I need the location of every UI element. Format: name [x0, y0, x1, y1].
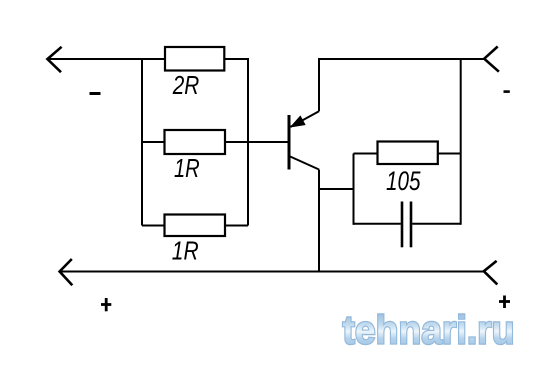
wire 105 left lead: [354, 153, 378, 155]
wire top rail left: [47, 58, 165, 60]
wire collector down: [318, 170, 320, 272]
wire right bus: [247, 58, 249, 226]
svg-text:1R: 1R: [172, 236, 199, 266]
label minus top-right: [504, 90, 510, 93]
terminal T4 bottom-right: [484, 261, 498, 285]
wire base lead to Q1: [225, 141, 289, 143]
resistor 1R bottom: [165, 215, 226, 237]
wire RC right side: [460, 58, 462, 225]
svg-text:2R: 2R: [172, 70, 199, 100]
capacitor C1: [402, 202, 411, 248]
label plus bottom-left: [101, 298, 111, 311]
terminal T2 top-right: [484, 47, 499, 72]
label minus top-left: [90, 92, 101, 95]
svg-text:1R: 1R: [174, 153, 200, 183]
wire cap right lead: [412, 223, 461, 225]
terminal T3 bottom-left: [60, 259, 73, 285]
svg-text:105: 105: [386, 166, 421, 196]
wire bottom 1R left lead: [142, 225, 165, 227]
wire middle 1R left lead: [142, 141, 165, 143]
terminal T1 top-left: [47, 47, 61, 72]
wire top rail right: [318, 58, 484, 60]
wire 105 right lead: [438, 153, 461, 155]
resistor 105: [378, 142, 438, 165]
svg-text:tehnari.ru: tehnari.ru: [343, 309, 515, 353]
wire collector branch to RC: [319, 188, 354, 190]
wire cap left lead: [354, 223, 401, 225]
wire bottom 1R right lead: [225, 225, 248, 227]
resistor 1R middle: [165, 130, 226, 154]
label plus bottom-right: [499, 296, 510, 309]
wire bottom rail: [60, 271, 484, 273]
transistor Q1 PNP: [289, 111, 319, 169]
wire emitter up: [318, 58, 320, 111]
wire left bus: [141, 58, 143, 226]
resistor 2R: [165, 47, 224, 71]
wire 2R right lead: [224, 58, 248, 60]
wire RC left side: [353, 154, 355, 225]
